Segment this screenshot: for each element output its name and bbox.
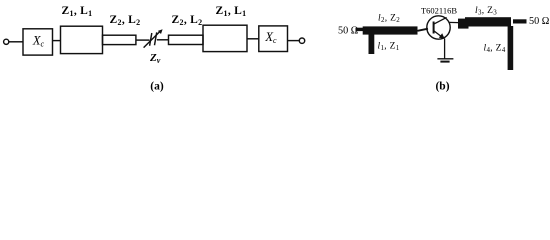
svg-text:l2, Z2: l2, Z2: [378, 14, 400, 25]
transmission line l2,Z2 (series microstrip, thick bar): [363, 26, 418, 34]
transmission line l1,Z1 (open stub down): [369, 33, 375, 54]
svg-text:T602116B: T602116B: [421, 6, 457, 16]
svg-text:Xc: Xc: [264, 30, 277, 45]
transmission line l3,Z3 (series microstrip right): [465, 17, 511, 26]
svg-text:Z2, L2: Z2, L2: [110, 14, 141, 27]
wire emitter to ground: [444, 39, 446, 59]
transmission line l4,Z4 (open stub down right): [508, 26, 514, 70]
transistor base bar: [433, 22, 435, 34]
transmission line Z1,L1 (left low-impedance section): [61, 26, 103, 53]
svg-text:50 Ω: 50 Ω: [529, 16, 550, 27]
svg-text:Z1, L1: Z1, L1: [62, 5, 93, 18]
wire base lead: [418, 29, 429, 31]
svg-text:l4, Z4: l4, Z4: [484, 43, 506, 54]
svg-text:Z1, L1: Z1, L1: [216, 5, 247, 18]
svg-text:Z2, L2: Z2, L2: [172, 14, 203, 27]
node: output port terminal (a): [299, 38, 304, 43]
svg-text:l1, Z1: l1, Z1: [378, 41, 400, 52]
node: input port terminal (a): [4, 39, 9, 44]
varactor Zv plate 1: [150, 33, 152, 46]
varactor Zv plate 2: [155, 32, 157, 45]
wire right Xc to output port: [288, 40, 300, 42]
transmission line Z1,L1 (right low-impedance section): [203, 25, 247, 51]
transistor Q1 T602116B body circle: [427, 16, 450, 39]
wire input to Xc: [9, 41, 23, 43]
wire Xc to Z1 line: [53, 40, 61, 42]
wire Z1 to right Xc: [247, 38, 259, 40]
svg-text:l3, Z3: l3, Z3: [475, 6, 497, 17]
ground symbol: [437, 58, 453, 60]
wire: 50 ohm feed line right: [513, 19, 527, 23]
wire varactor to Z2 line: [157, 39, 169, 41]
transistor collector lead: [434, 17, 447, 24]
varactor arrow: [144, 32, 160, 48]
varactor arrowhead: [158, 29, 163, 34]
emitter arrowhead: [439, 33, 445, 39]
svg-text:Zv: Zv: [149, 52, 161, 65]
svg-text:(a): (a): [150, 81, 164, 93]
transmission line Z2,L2 (right high-impedance section): [169, 35, 204, 44]
capacitor Xc (left coupling element box): [23, 29, 53, 55]
svg-text:(b): (b): [435, 81, 449, 93]
wire collector to pad: [449, 21, 459, 23]
wire: 50 ohm feed line left: [356, 28, 364, 31]
transistor emitter lead: [434, 31, 442, 37]
capacitor Xc (right coupling element box): [259, 26, 288, 52]
svg-text:Xc: Xc: [32, 34, 45, 49]
node: collector connector pad: [458, 19, 469, 29]
transmission line Z2,L2 (left high-impedance section): [103, 35, 136, 44]
wire Z2 to varactor: [136, 39, 150, 41]
